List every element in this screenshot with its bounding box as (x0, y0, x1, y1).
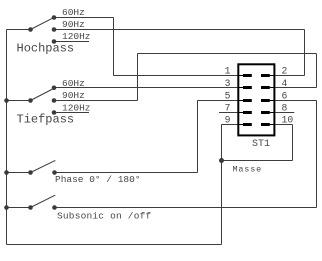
wire pin 2 net vertical (304, 30, 306, 76)
pin 3 bar (243, 86, 252, 89)
pin 6 bar (261, 99, 270, 102)
junction dot Tiefpass 60Hz contact (52, 86, 57, 91)
wire TP90 net vertical up (137, 54, 139, 101)
svg-text:Masse: Masse (233, 165, 263, 175)
pin 5 bar (243, 99, 252, 102)
junction dot rail at Subsonic (4, 205, 9, 210)
junction dot Tiefpass 120Hz contact (52, 110, 57, 115)
wire pin 10 stub (276, 124, 293, 126)
switch S3 Phase arm (31, 160, 56, 172)
switch S4 Subsonic arm (31, 195, 56, 207)
connector ST1 body (238, 64, 274, 135)
wire pin 4 stub (276, 87, 317, 89)
svg-text:Phase 0° / 180°: Phase 0° / 180° (55, 174, 141, 185)
junction dot Hochpass 120Hz contact (52, 39, 57, 44)
svg-text:3: 3 (225, 78, 231, 89)
junction dot rail at Phase (4, 170, 9, 175)
wire Tiefpass 120Hz open stub (54, 112, 89, 114)
wire Subsonic contact to right (55, 207, 317, 209)
svg-text:Hochpass: Hochpass (17, 41, 75, 55)
svg-text:8: 8 (282, 103, 288, 114)
svg-text:Tiefpass: Tiefpass (17, 113, 75, 127)
pin 6 inner lead (270, 100, 274, 101)
pin 10 inner lead (270, 124, 274, 125)
junction dot Subsonic common pole (28, 205, 33, 210)
pin 8 bar (261, 111, 270, 114)
svg-text:6: 6 (282, 91, 288, 102)
wire pin 1 net horizontal (114, 75, 239, 77)
wire Phase contact to right (55, 172, 198, 174)
wire Hochpass 60Hz contact stub (54, 17, 114, 19)
wire TP90 net top horizontal (138, 53, 317, 55)
svg-text:7: 7 (225, 103, 231, 114)
wire pin 9 / Masse vertical (221, 125, 223, 245)
svg-text:1: 1 (225, 66, 231, 77)
svg-text:60Hz: 60Hz (62, 7, 85, 18)
wire pin 10 vertical (292, 125, 294, 161)
pin 7 bar (243, 111, 252, 114)
pin 9 inner lead (239, 124, 243, 125)
junction dot Hochpass 60Hz contact (52, 15, 57, 20)
pin 10 bar (261, 123, 270, 126)
svg-text:5: 5 (225, 91, 231, 102)
svg-text:9: 9 (225, 115, 231, 126)
wire Hochpass 120Hz open stub (54, 41, 89, 43)
svg-text:10: 10 (282, 115, 294, 126)
svg-text:90Hz: 90Hz (62, 90, 85, 101)
wire pin 8 open stub (276, 112, 295, 114)
svg-text:Subsonic on /off: Subsonic on /off (57, 210, 152, 221)
wire ground rail bottom horizontal (7, 244, 222, 246)
svg-text:ST1: ST1 (252, 139, 270, 150)
junction dot Subsonic contact (52, 205, 57, 210)
wire Tiefpass common to rail (7, 100, 31, 102)
pin 4 bar (261, 86, 270, 89)
wire pin 9 stub (222, 124, 239, 126)
wire pin 6 stub (276, 100, 317, 102)
junction dot rail at Tiefpass (4, 98, 9, 103)
pin 5 inner lead (239, 100, 243, 101)
wire Subsonic common to rail (7, 207, 31, 209)
pin 7 inner lead (239, 112, 243, 113)
pin 1 inner lead (239, 75, 243, 76)
junction dot Hochpass 90Hz contact (52, 27, 57, 32)
wire pin 2 stub (276, 75, 305, 77)
svg-text:4: 4 (282, 78, 288, 89)
wire pin 4 net vertical (316, 54, 318, 88)
wire Hochpass 90Hz contact to right (54, 29, 305, 31)
junction dot Phase common pole (28, 170, 33, 175)
svg-text:2: 2 (282, 66, 288, 77)
junction dot Tiefpass common pole (28, 98, 33, 103)
switch S1 Hochpass arm (31, 17, 55, 29)
wire Tiefpass 60Hz to pin 3 (54, 87, 238, 89)
wire pin 5 net vertical (197, 101, 199, 173)
pin 8 inner lead (270, 112, 274, 113)
pin 2 inner lead (270, 75, 274, 76)
wire Tiefpass 90Hz contact stub (54, 100, 138, 102)
junction dot Hochpass common pole (28, 27, 33, 32)
wire pin 7 open stub (219, 112, 238, 114)
wire Hochpass common to rail (7, 29, 31, 31)
wire HP60 net vertical (113, 18, 115, 76)
pin 4 inner lead (270, 87, 274, 88)
pin 2 bar (261, 74, 270, 77)
pin 3 inner lead (239, 87, 243, 88)
wire pin 6 net vertical (316, 101, 318, 208)
pin 9 bar (243, 123, 252, 126)
wire ground rail left vertical (6, 30, 8, 245)
junction dot Phase contact (52, 170, 57, 175)
wire pin 5 stub (198, 100, 239, 102)
svg-text:60Hz: 60Hz (62, 78, 85, 89)
pin 1 bar (243, 74, 252, 77)
svg-text:90Hz: 90Hz (62, 19, 85, 30)
junction dot Tiefpass 90Hz contact (52, 98, 57, 103)
switch S2 Tiefpass arm (31, 88, 55, 101)
junction dot Masse node (219, 158, 224, 163)
wire pin 10 to Masse junction (222, 160, 293, 162)
wire Phase common to rail (7, 172, 31, 174)
